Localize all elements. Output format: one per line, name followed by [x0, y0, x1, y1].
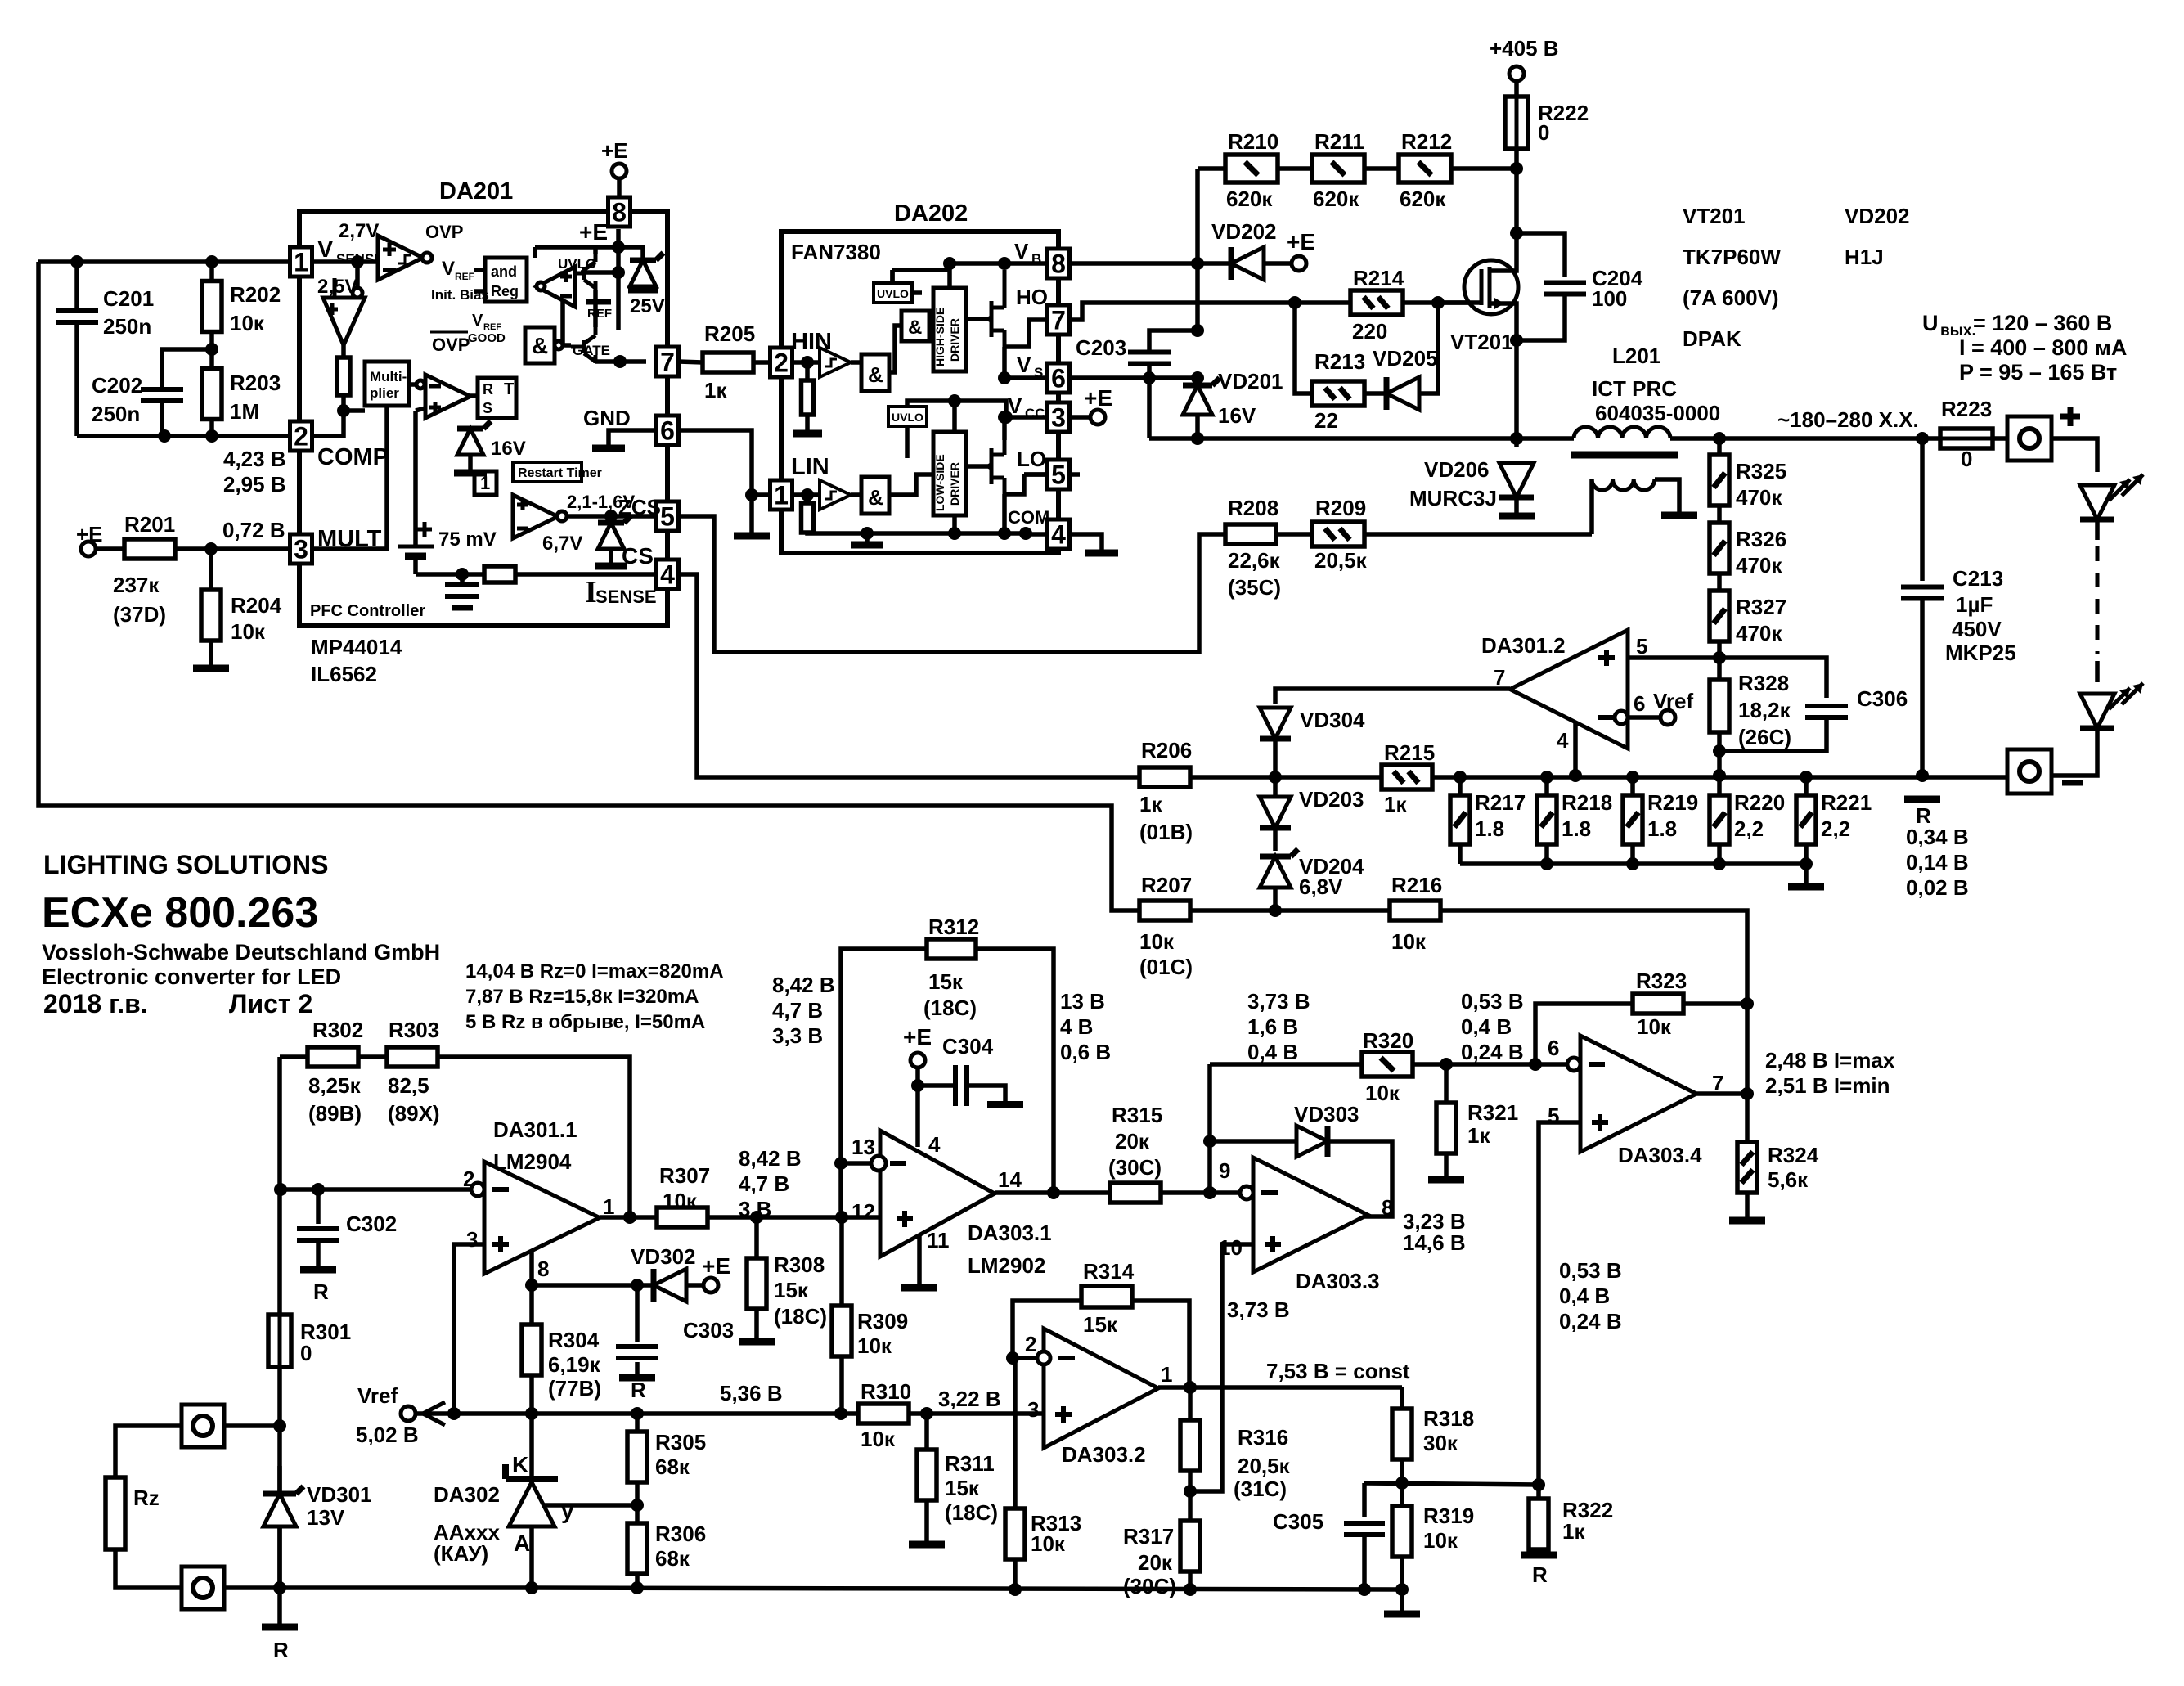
svg-text:V: V: [472, 312, 483, 330]
svg-text:R325: R325: [1736, 459, 1786, 483]
svg-text:C202: C202: [92, 373, 142, 398]
svg-text:R216: R216: [1391, 873, 1442, 897]
svg-text:C303: C303: [683, 1318, 734, 1342]
svg-text:0,4 В: 0,4 В: [1559, 1284, 1610, 1308]
svg-text:20к: 20к: [1115, 1129, 1150, 1153]
svg-text:2,1-1,6V: 2,1-1,6V: [567, 492, 635, 512]
svg-text:C203: C203: [1076, 335, 1126, 360]
svg-text:(30C): (30C): [1108, 1155, 1162, 1180]
svg-text:3: 3: [1051, 403, 1066, 433]
svg-text:DA302: DA302: [434, 1482, 500, 1507]
svg-text:DPAK: DPAK: [1683, 326, 1741, 351]
svg-text:0,4 В: 0,4 В: [1247, 1040, 1298, 1064]
svg-text:C302: C302: [346, 1212, 397, 1236]
svg-text:4 В: 4 В: [1060, 1014, 1093, 1039]
svg-text:14,04 В Rz=0 I=max=820mA: 14,04 В Rz=0 I=max=820mA: [465, 960, 724, 982]
svg-text:450V: 450V: [1952, 617, 2002, 641]
svg-text:15к: 15к: [774, 1278, 809, 1302]
svg-text:GOOD: GOOD: [468, 331, 506, 345]
svg-text:у: у: [561, 1498, 574, 1523]
svg-text:3: 3: [1027, 1397, 1039, 1422]
svg-text:PFC Controller: PFC Controller: [310, 602, 425, 620]
svg-text:DA303.1: DA303.1: [968, 1221, 1052, 1245]
svg-text:13: 13: [852, 1135, 875, 1159]
svg-text:15к: 15к: [945, 1476, 980, 1500]
svg-text:8,42 В: 8,42 В: [739, 1146, 802, 1171]
svg-text:Reg: Reg: [491, 283, 519, 299]
svg-text:~180–280 Х.Х.: ~180–280 Х.Х.: [1777, 407, 1919, 432]
svg-text:1к: 1к: [1467, 1123, 1490, 1148]
svg-text:100: 100: [1592, 286, 1627, 311]
svg-text:8: 8: [1051, 250, 1066, 279]
svg-text:VD301: VD301: [307, 1482, 372, 1507]
svg-text:R314: R314: [1083, 1259, 1135, 1284]
svg-text:VD205: VD205: [1373, 346, 1438, 371]
svg-text:L201: L201: [1612, 344, 1660, 368]
svg-text:470к: 470к: [1736, 485, 1782, 510]
svg-text:1: 1: [1161, 1362, 1172, 1387]
svg-text:6,7V: 6,7V: [542, 533, 582, 555]
svg-text:R210: R210: [1228, 129, 1278, 154]
svg-text:7,53 В = const: 7,53 В = const: [1266, 1359, 1410, 1383]
svg-text:2018 г.в.: 2018 г.в.: [43, 989, 148, 1018]
svg-text:&: &: [868, 485, 883, 510]
svg-text:2: 2: [774, 348, 789, 378]
svg-text:10к: 10к: [857, 1333, 892, 1358]
svg-text:R308: R308: [774, 1252, 825, 1277]
svg-text:Restart Timer: Restart Timer: [518, 466, 602, 480]
svg-text:HIGH-SIDE: HIGH-SIDE: [933, 308, 946, 366]
svg-text:+E: +E: [1287, 229, 1315, 254]
svg-text:A: A: [514, 1531, 530, 1556]
svg-text:VD202: VD202: [1845, 204, 1910, 228]
svg-text:14: 14: [998, 1167, 1022, 1192]
svg-text:OVP: OVP: [432, 335, 470, 355]
svg-text:VT201: VT201: [1450, 330, 1513, 354]
svg-text:TK7P60W: TK7P60W: [1683, 245, 1781, 269]
svg-text:R214: R214: [1353, 266, 1404, 290]
svg-text:10к: 10к: [861, 1427, 896, 1451]
svg-text:4,23 В: 4,23 В: [223, 447, 286, 471]
svg-text:8,25к: 8,25к: [308, 1073, 362, 1098]
svg-text:10к: 10к: [230, 311, 265, 335]
svg-text:(18C): (18C): [945, 1500, 998, 1525]
svg-text:604035-0000: 604035-0000: [1595, 401, 1720, 425]
svg-text:4: 4: [1051, 520, 1066, 550]
svg-text:2,2: 2,2: [1734, 816, 1764, 841]
svg-text:220: 220: [1352, 319, 1387, 344]
svg-text:R209: R209: [1315, 496, 1366, 520]
svg-text:R204: R204: [231, 593, 282, 618]
svg-text:Vossloh-Schwabe Deutschland Gm: Vossloh-Schwabe Deutschland GmbH: [42, 940, 440, 964]
svg-text:(37D): (37D): [113, 602, 166, 627]
svg-text:11: 11: [927, 1228, 950, 1252]
svg-text:OVP: OVP: [425, 222, 463, 242]
svg-text:7: 7: [1051, 306, 1066, 335]
svg-text:R315: R315: [1112, 1103, 1162, 1127]
svg-text:V: V: [442, 258, 455, 280]
svg-text:5: 5: [1636, 634, 1647, 659]
svg-text:V: V: [1014, 239, 1029, 263]
svg-text:10к: 10к: [1031, 1531, 1066, 1556]
svg-text:10к: 10к: [1391, 929, 1427, 954]
svg-text:3: 3: [466, 1227, 478, 1252]
svg-text:0: 0: [1961, 447, 1972, 471]
svg-text:1.8: 1.8: [1647, 816, 1677, 841]
svg-text:R215: R215: [1384, 740, 1435, 765]
svg-text:(КАУ): (КАУ): [434, 1541, 488, 1566]
svg-text:LO: LO: [1017, 447, 1046, 471]
svg-text:10к: 10к: [1423, 1528, 1458, 1553]
svg-text:1к: 1к: [1562, 1519, 1585, 1544]
svg-text:R303: R303: [389, 1018, 439, 1042]
svg-text:3,3 В: 3,3 В: [772, 1023, 823, 1048]
svg-text:12: 12: [852, 1199, 875, 1224]
svg-text:18,2к: 18,2к: [1738, 698, 1791, 722]
svg-text:VT201: VT201: [1683, 204, 1746, 228]
svg-text:2: 2: [1025, 1332, 1036, 1356]
svg-text:&: &: [532, 333, 548, 358]
svg-text:VD203: VD203: [1299, 787, 1364, 812]
svg-text:250n: 250n: [103, 314, 151, 339]
svg-text:R: R: [483, 381, 493, 398]
svg-text:15к: 15к: [1083, 1312, 1118, 1337]
svg-text:R305: R305: [655, 1430, 706, 1454]
svg-text:1µF: 1µF: [1956, 592, 1993, 617]
svg-text:25V: 25V: [630, 295, 665, 317]
svg-text:0,6 В: 0,6 В: [1060, 1040, 1111, 1064]
svg-text:620к: 620к: [1400, 187, 1446, 211]
svg-text:620к: 620к: [1226, 187, 1273, 211]
svg-text:(18C): (18C): [923, 996, 977, 1020]
svg-text:470к: 470к: [1736, 621, 1782, 645]
svg-text:4: 4: [1557, 728, 1569, 753]
svg-text:R223: R223: [1941, 397, 1992, 421]
svg-text:16V: 16V: [1218, 403, 1256, 428]
svg-text:5 В Rz в обрыве, I=50mA: 5 В Rz в обрыве, I=50mA: [465, 1011, 705, 1033]
svg-text:(01C): (01C): [1139, 955, 1193, 979]
svg-text:1к: 1к: [1139, 792, 1162, 816]
svg-text:DA201: DA201: [439, 178, 513, 205]
svg-text:7: 7: [1494, 665, 1505, 690]
svg-text:H1J: H1J: [1845, 245, 1884, 269]
svg-text:R326: R326: [1736, 527, 1786, 551]
svg-text:6: 6: [1051, 364, 1066, 393]
svg-text:Rz: Rz: [133, 1486, 160, 1510]
svg-text:2,7V: 2,7V: [339, 220, 379, 242]
svg-text:HO: HO: [1016, 285, 1048, 309]
svg-text:6: 6: [1548, 1036, 1559, 1060]
svg-text:68к: 68к: [655, 1454, 690, 1479]
svg-text:VD303: VD303: [1294, 1102, 1359, 1126]
svg-text:7,87 В Rz=15,8к I=320mA: 7,87 В Rz=15,8к I=320mA: [465, 986, 699, 1008]
svg-text:LIGHTING SOLUTIONS: LIGHTING SOLUTIONS: [43, 850, 328, 879]
svg-text:2: 2: [294, 422, 308, 452]
svg-text:DA303.4: DA303.4: [1618, 1143, 1702, 1167]
svg-text:+E: +E: [579, 219, 608, 245]
svg-text:8: 8: [612, 198, 627, 227]
svg-text:0,14 В: 0,14 В: [1906, 850, 1969, 874]
svg-text:R218: R218: [1562, 790, 1612, 815]
svg-text:Лист 2: Лист 2: [229, 989, 312, 1018]
svg-text:R310: R310: [861, 1379, 911, 1404]
svg-text:10к: 10к: [1365, 1081, 1400, 1105]
svg-text:R202: R202: [230, 282, 281, 307]
svg-text:ECXe 800.263: ECXe 800.263: [42, 889, 318, 937]
svg-text:R: R: [313, 1279, 329, 1304]
svg-text:(31C): (31C): [1234, 1477, 1287, 1501]
svg-text:K: K: [512, 1452, 528, 1477]
svg-text:0,72 В: 0,72 В: [222, 518, 285, 542]
svg-text:1.8: 1.8: [1475, 816, 1504, 841]
svg-text:DA202: DA202: [894, 200, 968, 227]
svg-text:(01В): (01В): [1139, 820, 1193, 844]
svg-text:+E: +E: [903, 1024, 932, 1050]
svg-text:R201: R201: [124, 512, 175, 537]
svg-text:MKP25: MKP25: [1945, 641, 2016, 665]
svg-text:R217: R217: [1475, 790, 1526, 815]
svg-text:3,22 В: 3,22 В: [938, 1387, 1001, 1411]
svg-text:R302: R302: [312, 1018, 363, 1042]
svg-text:5,6к: 5,6к: [1768, 1167, 1809, 1192]
svg-text:C201: C201: [103, 286, 154, 311]
svg-text:+E: +E: [601, 138, 628, 163]
svg-text:8: 8: [537, 1257, 549, 1281]
svg-text:C306: C306: [1857, 686, 1908, 711]
svg-text:REF: REF: [587, 307, 612, 321]
svg-text:8,42 В: 8,42 В: [772, 973, 835, 997]
svg-text:5,36 В: 5,36 В: [720, 1381, 783, 1405]
svg-text:R213: R213: [1314, 349, 1365, 374]
svg-text:R327: R327: [1736, 595, 1786, 619]
svg-text:R219: R219: [1647, 790, 1698, 815]
svg-text:V: V: [317, 236, 334, 263]
svg-text:0,24 В: 0,24 В: [1559, 1309, 1622, 1333]
svg-text:R316: R316: [1238, 1425, 1288, 1450]
svg-text:0,02 В: 0,02 В: [1906, 875, 1969, 900]
svg-text:DA303.2: DA303.2: [1062, 1442, 1146, 1467]
svg-text:75 mV: 75 mV: [438, 528, 497, 551]
svg-text:0,53 В: 0,53 В: [1461, 989, 1524, 1014]
svg-text:MP44014: MP44014: [311, 635, 402, 659]
svg-text:plier: plier: [370, 385, 399, 401]
svg-text:(7A 600V): (7A 600V): [1683, 285, 1779, 310]
svg-text:1: 1: [774, 481, 789, 510]
svg-text:VD304: VD304: [1300, 708, 1365, 732]
svg-text:(77В): (77В): [548, 1376, 601, 1401]
svg-text:LOW-SIDE: LOW-SIDE: [933, 454, 946, 511]
svg-text:R306: R306: [655, 1522, 706, 1546]
svg-text:0,53 В: 0,53 В: [1559, 1258, 1622, 1283]
svg-text:ICT PRC: ICT PRC: [1592, 376, 1677, 401]
svg-text:82,5: 82,5: [388, 1073, 429, 1098]
svg-text:R203: R203: [230, 371, 281, 395]
svg-text:SENSE: SENSE: [595, 587, 657, 607]
svg-text:3,73 В: 3,73 В: [1247, 989, 1310, 1014]
svg-text:13V: 13V: [307, 1505, 345, 1530]
svg-text:R221: R221: [1821, 790, 1872, 815]
svg-text:1.8: 1.8: [1562, 816, 1591, 841]
svg-text:FAN7380: FAN7380: [791, 240, 881, 264]
svg-text:2,51 В I=min: 2,51 В I=min: [1765, 1073, 1890, 1098]
svg-text:250n: 250n: [92, 402, 140, 426]
svg-text:LM2902: LM2902: [968, 1253, 1045, 1278]
svg-text:(89В): (89В): [308, 1101, 362, 1126]
svg-text:&: &: [868, 362, 883, 387]
svg-text:R320: R320: [1363, 1028, 1413, 1053]
svg-text:22,6к: 22,6к: [1228, 548, 1281, 573]
svg-text:2,95 В: 2,95 В: [223, 472, 286, 497]
svg-text:620к: 620к: [1313, 187, 1359, 211]
svg-text:UVLO: UVLO: [877, 287, 909, 300]
svg-text:1M: 1M: [230, 399, 259, 424]
svg-text:0: 0: [300, 1341, 312, 1365]
svg-text:Vref: Vref: [1653, 689, 1693, 713]
svg-text:3 В: 3 В: [739, 1197, 771, 1221]
svg-text:13 В: 13 В: [1060, 989, 1105, 1014]
svg-text:20,5к: 20,5к: [1314, 548, 1368, 573]
svg-text:R207: R207: [1141, 873, 1192, 897]
svg-text:R208: R208: [1228, 496, 1278, 520]
svg-text:R211: R211: [1314, 129, 1364, 154]
svg-text:R307: R307: [659, 1163, 710, 1188]
svg-text:C304: C304: [942, 1034, 994, 1059]
svg-text:DA301.2: DA301.2: [1481, 633, 1566, 658]
svg-text:U: U: [1922, 311, 1939, 335]
svg-text:V: V: [1017, 353, 1031, 377]
svg-text:6: 6: [660, 416, 675, 446]
svg-text:R319: R319: [1423, 1504, 1474, 1528]
svg-text:R312: R312: [928, 915, 979, 939]
svg-text:R: R: [273, 1638, 289, 1662]
svg-text:5: 5: [1051, 461, 1066, 490]
svg-text:T: T: [504, 380, 514, 398]
svg-text:LM2904: LM2904: [493, 1149, 572, 1174]
svg-text:4: 4: [660, 560, 675, 590]
svg-text:1,6 В: 1,6 В: [1247, 1014, 1298, 1039]
svg-text:0,34 В: 0,34 В: [1906, 825, 1969, 849]
svg-text:+E: +E: [1084, 385, 1112, 411]
svg-text:= 120 – 360 В: = 120 – 360 В: [1973, 311, 2112, 335]
svg-text:(26C): (26C): [1738, 725, 1791, 749]
svg-text:10к: 10к: [1139, 929, 1175, 954]
svg-text:VD202: VD202: [1211, 219, 1277, 244]
svg-text:R: R: [631, 1378, 646, 1402]
svg-text:9: 9: [1219, 1158, 1230, 1183]
svg-text:R317: R317: [1123, 1524, 1174, 1549]
svg-text:Electronic converter for LED: Electronic converter for LED: [42, 964, 341, 989]
svg-text:14,6 В: 14,6 В: [1403, 1230, 1466, 1255]
svg-text:2: 2: [463, 1167, 474, 1191]
svg-text:+405 В: +405 В: [1490, 36, 1559, 61]
svg-text:1: 1: [294, 248, 308, 277]
svg-text:LIN: LIN: [791, 454, 829, 480]
svg-text:R220: R220: [1734, 790, 1785, 815]
svg-text:7: 7: [660, 348, 675, 377]
svg-text:(89X): (89X): [388, 1101, 440, 1126]
svg-text:(30C): (30C): [1123, 1574, 1176, 1598]
svg-text:UVLO: UVLO: [558, 256, 596, 272]
svg-text:5: 5: [660, 502, 675, 532]
svg-text:COMP: COMP: [317, 444, 389, 470]
svg-text:6: 6: [1634, 691, 1645, 716]
svg-text:DA303.3: DA303.3: [1296, 1269, 1380, 1293]
svg-text:DA301.1: DA301.1: [493, 1117, 577, 1142]
svg-text:R205: R205: [704, 321, 755, 346]
svg-text:C213: C213: [1953, 566, 2003, 591]
svg-text:and: and: [491, 263, 517, 280]
svg-text:R323: R323: [1636, 969, 1687, 993]
svg-text:R: R: [1532, 1562, 1548, 1587]
svg-text:0,24 В: 0,24 В: [1461, 1040, 1524, 1064]
svg-text:I = 400 – 800 мА: I = 400 – 800 мА: [1959, 335, 2127, 360]
svg-text:R311: R311: [945, 1451, 995, 1476]
svg-text:4,7 В: 4,7 В: [772, 998, 823, 1023]
svg-text:IL6562: IL6562: [311, 662, 377, 686]
svg-text:2,48 В I=max: 2,48 В I=max: [1765, 1048, 1895, 1072]
svg-text:Vref: Vref: [357, 1383, 398, 1408]
svg-text:3: 3: [294, 535, 308, 564]
svg-text:0,4 В: 0,4 В: [1461, 1014, 1512, 1039]
svg-text:1к: 1к: [704, 378, 727, 402]
svg-text:22: 22: [1314, 408, 1338, 433]
svg-text:20,5к: 20,5к: [1238, 1454, 1291, 1478]
svg-text:470к: 470к: [1736, 553, 1782, 578]
svg-text:R304: R304: [548, 1328, 600, 1352]
svg-text:&: &: [908, 317, 922, 339]
svg-text:REF: REF: [455, 271, 474, 282]
svg-text:DRIVER: DRIVER: [948, 318, 961, 362]
svg-text:(35C): (35C): [1228, 575, 1281, 600]
svg-text:VD206: VD206: [1424, 457, 1490, 482]
svg-text:GND: GND: [583, 406, 631, 430]
svg-text:5,02 В: 5,02 В: [356, 1423, 419, 1447]
svg-text:16V: 16V: [491, 438, 526, 460]
svg-text:3,73 В: 3,73 В: [1227, 1297, 1290, 1322]
svg-text:R321: R321: [1467, 1100, 1518, 1125]
svg-text:R328: R328: [1738, 671, 1789, 695]
svg-text:20к: 20к: [1138, 1550, 1173, 1575]
svg-text:68к: 68к: [655, 1546, 690, 1571]
svg-text:MURC3J: MURC3J: [1409, 486, 1497, 510]
svg-text:VD201: VD201: [1218, 369, 1283, 393]
svg-text:6,8V: 6,8V: [1299, 874, 1343, 899]
svg-text:237к: 237к: [113, 573, 160, 597]
svg-text:Multi-: Multi-: [370, 369, 407, 384]
svg-text:30к: 30к: [1423, 1431, 1458, 1455]
svg-text:(18C): (18C): [774, 1304, 827, 1329]
svg-text:VD302: VD302: [631, 1244, 696, 1269]
svg-text:C305: C305: [1273, 1509, 1323, 1534]
svg-text:S: S: [483, 400, 492, 416]
svg-text:R324: R324: [1768, 1143, 1819, 1167]
svg-text:COM: COM: [1008, 507, 1049, 528]
svg-text:10к: 10к: [1637, 1014, 1672, 1039]
svg-text:2,2: 2,2: [1821, 816, 1850, 841]
svg-text:R212: R212: [1401, 129, 1452, 154]
svg-text:4: 4: [928, 1132, 941, 1157]
svg-text:R206: R206: [1141, 738, 1192, 762]
svg-text:DRIVER: DRIVER: [948, 462, 961, 506]
svg-text:R318: R318: [1423, 1406, 1474, 1431]
svg-text:+E: +E: [702, 1253, 730, 1279]
svg-text:10к: 10к: [663, 1189, 698, 1213]
svg-text:15к: 15к: [928, 969, 964, 994]
svg-text:0: 0: [1538, 120, 1549, 145]
svg-text:10к: 10к: [231, 619, 266, 644]
svg-text:6,19к: 6,19к: [548, 1352, 601, 1377]
svg-text:R309: R309: [857, 1309, 908, 1333]
